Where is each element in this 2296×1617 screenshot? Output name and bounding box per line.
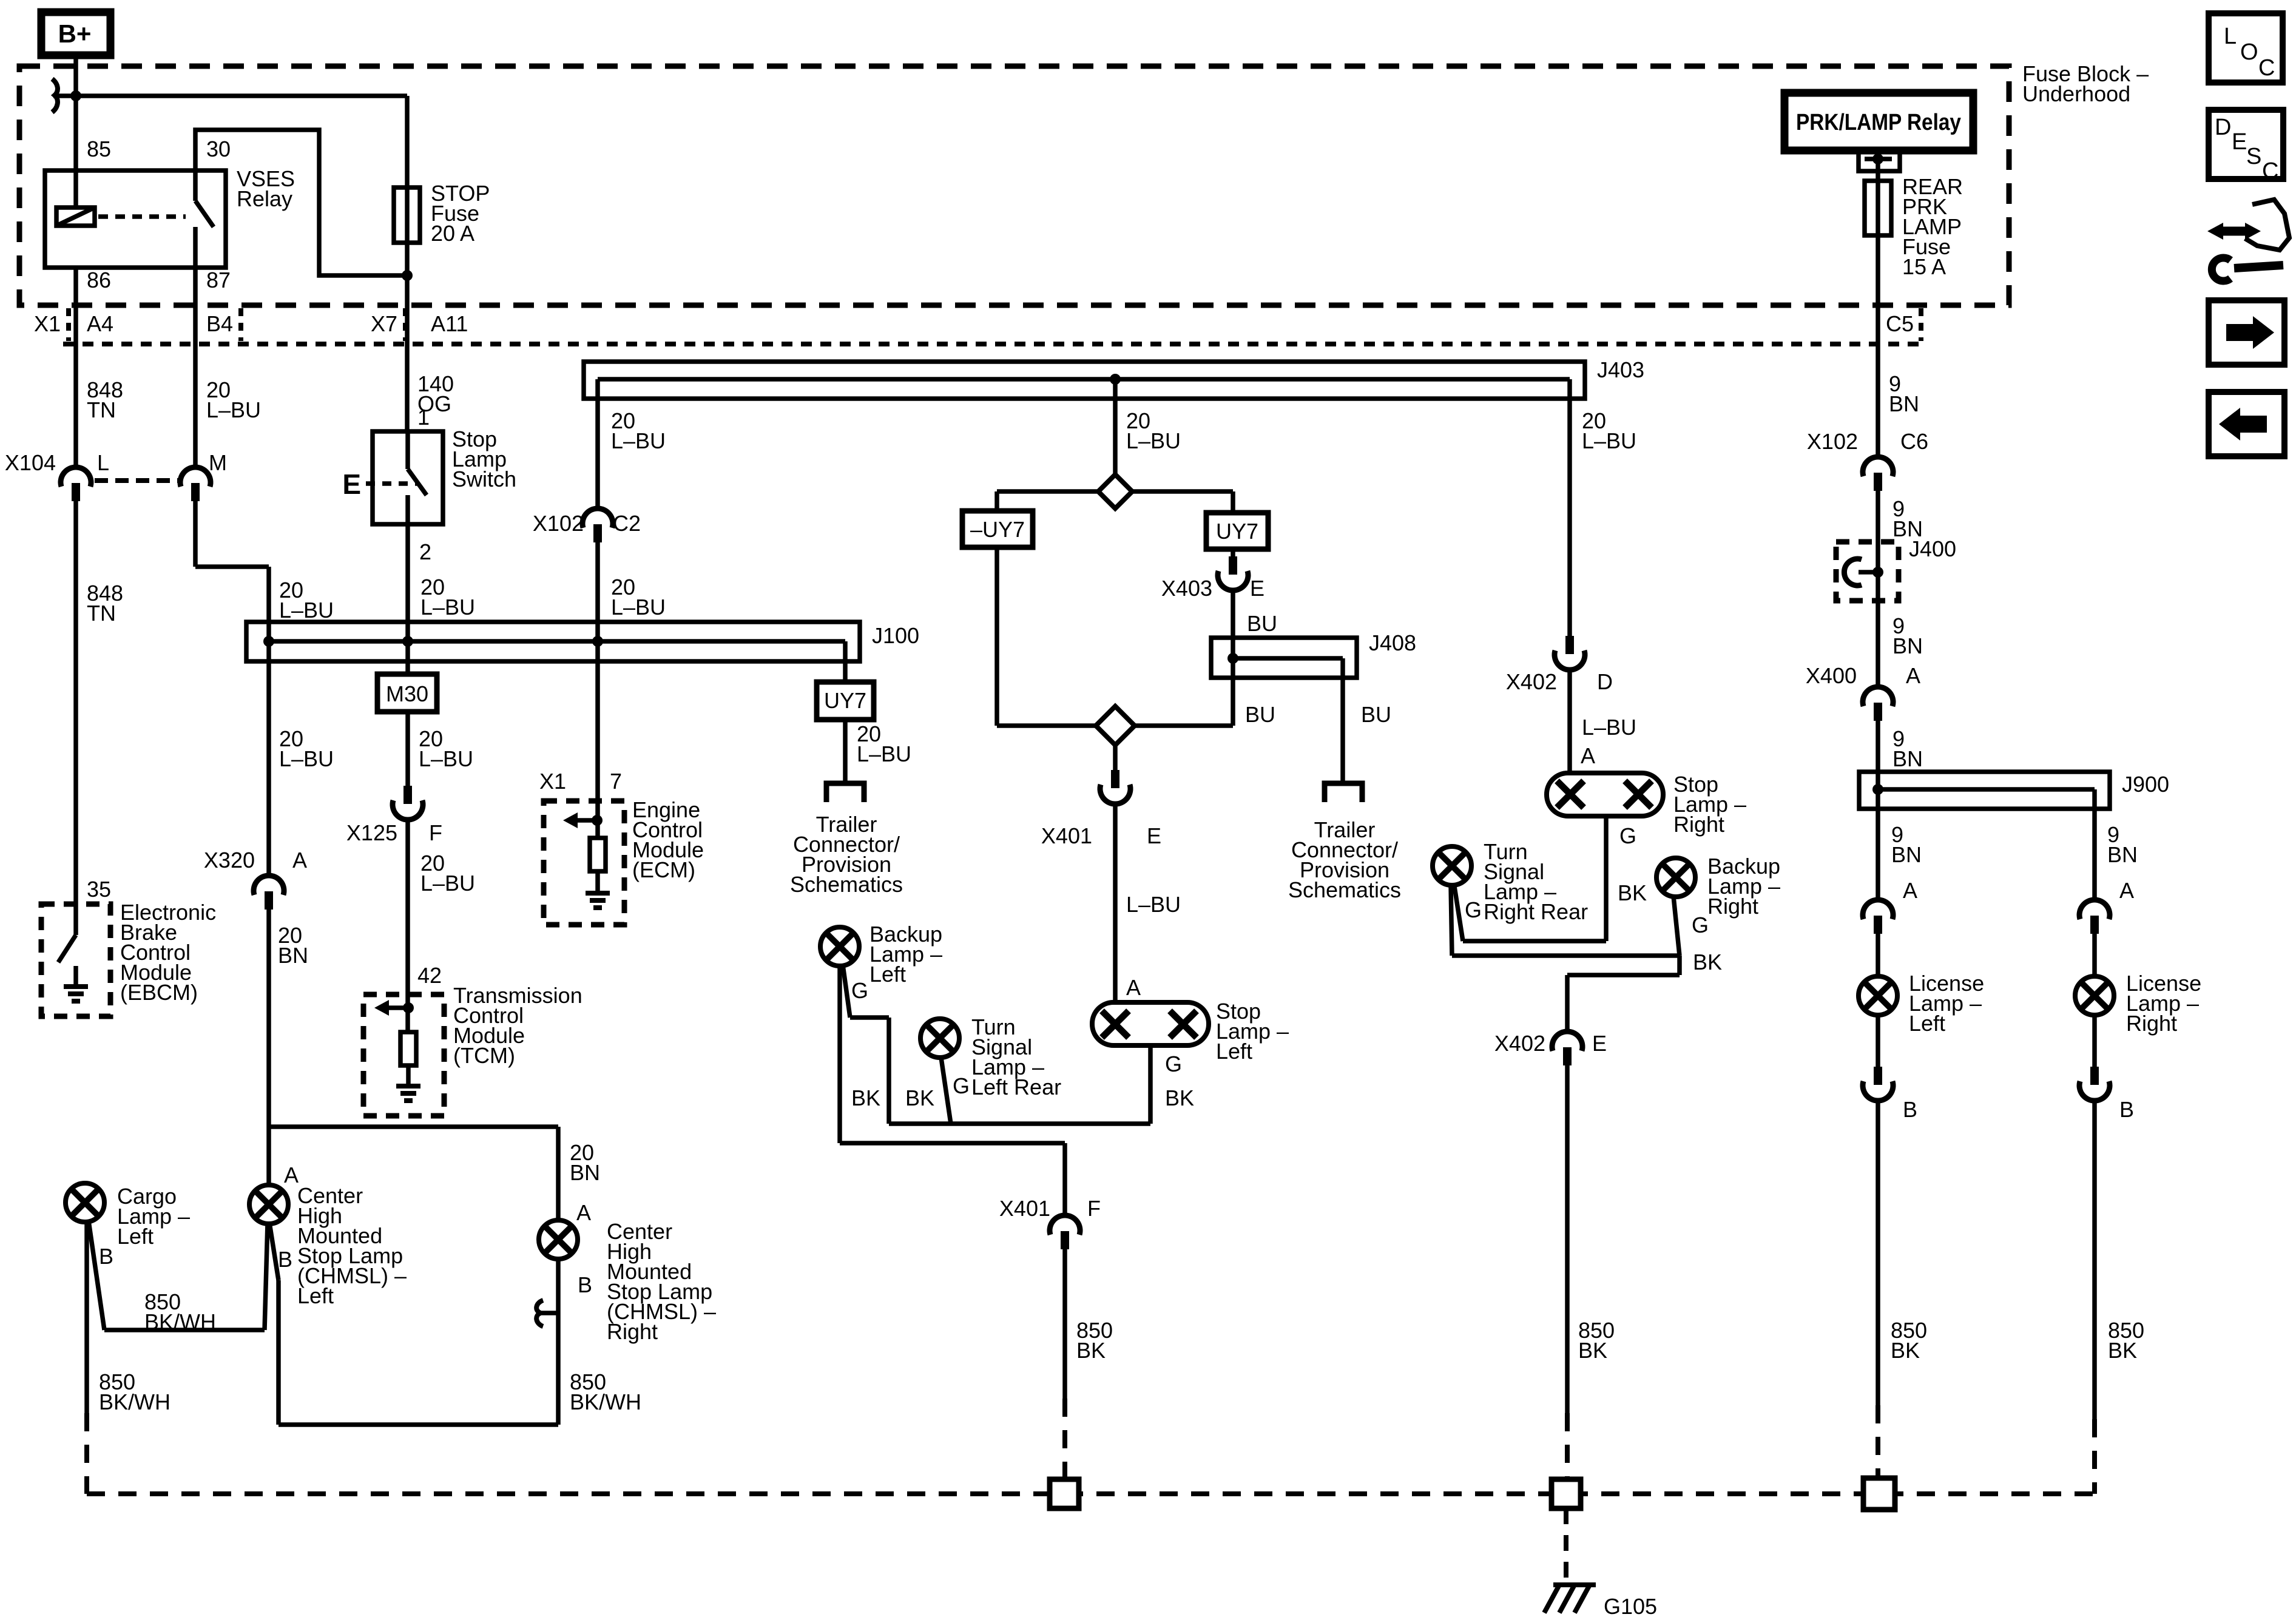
svg-text:Left: Left bbox=[1909, 1011, 1945, 1036]
svg-text:B: B bbox=[1903, 1097, 1917, 1122]
svg-text:BU: BU bbox=[1361, 702, 1391, 727]
svg-text:L–BU: L–BU bbox=[1582, 715, 1636, 740]
svg-text:X400: X400 bbox=[1806, 663, 1857, 688]
svg-text:J403: J403 bbox=[1597, 357, 1644, 382]
svg-text:A4: A4 bbox=[87, 311, 113, 336]
svg-text:BN: BN bbox=[1891, 842, 1922, 867]
svg-text:30: 30 bbox=[206, 137, 231, 161]
svg-text:85: 85 bbox=[87, 137, 111, 161]
svg-text:A: A bbox=[576, 1200, 591, 1225]
svg-text:Switch: Switch bbox=[452, 467, 516, 491]
svg-text:C6: C6 bbox=[1900, 429, 1928, 454]
svg-text:L–BU: L–BU bbox=[279, 746, 334, 771]
svg-text:X1: X1 bbox=[34, 311, 61, 336]
svg-text:UY7: UY7 bbox=[824, 688, 866, 713]
svg-text:E: E bbox=[342, 468, 361, 500]
svg-text:A: A bbox=[1906, 663, 1920, 688]
svg-text:L–BU: L–BU bbox=[1126, 428, 1181, 453]
svg-text:–UY7: –UY7 bbox=[970, 517, 1025, 542]
svg-text:B: B bbox=[578, 1272, 592, 1297]
svg-text:2: 2 bbox=[419, 539, 431, 564]
svg-text:C: C bbox=[2262, 158, 2278, 184]
svg-text:BK: BK bbox=[1165, 1085, 1194, 1110]
svg-text:BU: BU bbox=[1247, 611, 1277, 636]
svg-text:BU: BU bbox=[1245, 702, 1275, 727]
svg-text:G: G bbox=[1165, 1052, 1182, 1076]
svg-text:A11: A11 bbox=[431, 311, 468, 336]
svg-text:E: E bbox=[1147, 823, 1161, 848]
svg-text:TN: TN bbox=[87, 601, 116, 626]
svg-text:E: E bbox=[1592, 1031, 1607, 1056]
svg-text:A: A bbox=[1126, 975, 1141, 1000]
svg-text:BK: BK bbox=[2108, 1338, 2137, 1363]
svg-text:B4: B4 bbox=[206, 311, 233, 336]
svg-text:B: B bbox=[99, 1244, 113, 1269]
svg-text:Left: Left bbox=[869, 962, 906, 987]
svg-text:PRK/LAMP Relay: PRK/LAMP Relay bbox=[1796, 110, 1961, 135]
svg-text:7: 7 bbox=[610, 769, 622, 794]
svg-text:BK/WH: BK/WH bbox=[144, 1309, 216, 1334]
svg-text:G: G bbox=[851, 978, 868, 1003]
svg-text:Right Rear: Right Rear bbox=[1484, 899, 1588, 924]
svg-text:BK: BK bbox=[1891, 1338, 1920, 1363]
svg-text:BK/WH: BK/WH bbox=[570, 1389, 641, 1414]
svg-text:BK: BK bbox=[1693, 950, 1722, 974]
svg-text:BN: BN bbox=[1889, 391, 1919, 416]
svg-text:L–BU: L–BU bbox=[420, 871, 475, 896]
svg-text:BK: BK bbox=[1076, 1338, 1106, 1363]
svg-text:BN: BN bbox=[278, 943, 308, 968]
svg-text:D: D bbox=[2215, 115, 2231, 140]
svg-text:A: A bbox=[1903, 878, 1917, 903]
svg-text:TN: TN bbox=[87, 397, 116, 422]
svg-text:L–BU: L–BU bbox=[279, 598, 334, 623]
svg-text:Right: Right bbox=[1707, 894, 1758, 919]
svg-text:G: G bbox=[1692, 913, 1709, 937]
svg-text:42: 42 bbox=[417, 963, 442, 988]
svg-text:D: D bbox=[1597, 669, 1613, 694]
svg-text:X403: X403 bbox=[1161, 576, 1212, 601]
svg-text:J900: J900 bbox=[2122, 772, 2169, 797]
svg-text:L–BU: L–BU bbox=[420, 595, 475, 619]
svg-text:BN: BN bbox=[570, 1160, 600, 1185]
svg-text:35: 35 bbox=[87, 877, 111, 902]
svg-text:Relay: Relay bbox=[237, 186, 292, 211]
svg-text:L–BU: L–BU bbox=[206, 397, 261, 422]
svg-text:BN: BN bbox=[2107, 842, 2138, 867]
svg-text:J400: J400 bbox=[1909, 536, 1956, 561]
svg-text:X402: X402 bbox=[1506, 669, 1557, 694]
svg-text:15 A: 15 A bbox=[1902, 254, 1946, 279]
svg-text:L–BU: L–BU bbox=[611, 428, 666, 453]
svg-text:L–BU: L–BU bbox=[611, 595, 666, 619]
svg-text:X125: X125 bbox=[346, 820, 397, 845]
svg-text:(TCM): (TCM) bbox=[453, 1043, 515, 1068]
svg-text:L: L bbox=[2224, 24, 2237, 49]
svg-text:Right: Right bbox=[607, 1319, 658, 1344]
svg-text:Left Rear: Left Rear bbox=[971, 1075, 1061, 1099]
svg-text:G105: G105 bbox=[1604, 1594, 1657, 1617]
svg-text:C: C bbox=[2258, 55, 2275, 81]
svg-text:A: A bbox=[292, 848, 307, 873]
svg-text:(EBCM): (EBCM) bbox=[120, 980, 198, 1005]
svg-text:X401: X401 bbox=[999, 1196, 1050, 1221]
svg-text:X7: X7 bbox=[371, 311, 397, 336]
svg-text:BN: BN bbox=[1893, 633, 1923, 658]
svg-text:E: E bbox=[2232, 129, 2247, 155]
svg-text:20 A: 20 A bbox=[431, 221, 474, 246]
svg-text:L–BU: L–BU bbox=[419, 746, 473, 771]
svg-text:Schematics: Schematics bbox=[1288, 877, 1401, 902]
svg-text:BK: BK bbox=[851, 1085, 880, 1110]
svg-text:Left: Left bbox=[117, 1224, 154, 1249]
svg-text:L: L bbox=[97, 450, 109, 475]
svg-text:Right: Right bbox=[2126, 1011, 2177, 1036]
svg-text:B+: B+ bbox=[58, 19, 92, 48]
svg-text:X102: X102 bbox=[1807, 429, 1858, 454]
svg-text:A: A bbox=[2119, 878, 2134, 903]
svg-text:Underhood: Underhood bbox=[2022, 81, 2130, 106]
svg-text:86: 86 bbox=[87, 268, 111, 292]
svg-text:UY7: UY7 bbox=[1216, 519, 1258, 544]
svg-text:L–BU: L–BU bbox=[1126, 892, 1181, 917]
svg-text:F: F bbox=[429, 820, 442, 845]
svg-text:X102: X102 bbox=[533, 511, 584, 536]
svg-text:L–BU: L–BU bbox=[1582, 428, 1636, 453]
svg-text:G: G bbox=[1619, 823, 1636, 848]
svg-text:A: A bbox=[1581, 743, 1595, 768]
svg-text:BK: BK bbox=[905, 1085, 934, 1110]
svg-text:X104: X104 bbox=[5, 450, 56, 475]
svg-text:G: G bbox=[953, 1073, 970, 1098]
svg-text:B: B bbox=[278, 1247, 292, 1272]
svg-text:L–BU: L–BU bbox=[857, 741, 911, 766]
svg-text:B: B bbox=[2119, 1097, 2134, 1122]
svg-text:C5: C5 bbox=[1886, 311, 1914, 336]
svg-text:BN: BN bbox=[1893, 746, 1923, 771]
svg-text:Left: Left bbox=[1216, 1039, 1252, 1064]
svg-text:G: G bbox=[1465, 897, 1482, 922]
svg-text:C2: C2 bbox=[613, 511, 641, 536]
svg-text:J408: J408 bbox=[1369, 630, 1416, 655]
svg-text:M: M bbox=[209, 450, 227, 475]
svg-text:Left: Left bbox=[297, 1283, 334, 1308]
svg-text:(ECM): (ECM) bbox=[632, 857, 695, 882]
svg-text:M30: M30 bbox=[386, 681, 428, 706]
svg-text:X401: X401 bbox=[1041, 823, 1092, 848]
svg-text:F: F bbox=[1087, 1196, 1101, 1221]
svg-text:Right: Right bbox=[1673, 812, 1724, 837]
svg-text:O: O bbox=[2240, 39, 2258, 65]
svg-text:X402: X402 bbox=[1494, 1031, 1545, 1056]
svg-text:BK: BK bbox=[1578, 1338, 1607, 1363]
svg-text:BK/WH: BK/WH bbox=[99, 1389, 171, 1414]
svg-text:A: A bbox=[284, 1163, 299, 1187]
svg-text:J100: J100 bbox=[872, 623, 919, 648]
svg-text:E: E bbox=[1250, 576, 1264, 601]
svg-text:BK: BK bbox=[1618, 880, 1647, 905]
svg-text:S: S bbox=[2246, 144, 2261, 169]
svg-text:1: 1 bbox=[417, 405, 430, 430]
svg-text:87: 87 bbox=[206, 268, 231, 292]
svg-text:X320: X320 bbox=[204, 848, 255, 873]
svg-text:Schematics: Schematics bbox=[790, 872, 903, 897]
svg-text:X1: X1 bbox=[539, 769, 566, 794]
